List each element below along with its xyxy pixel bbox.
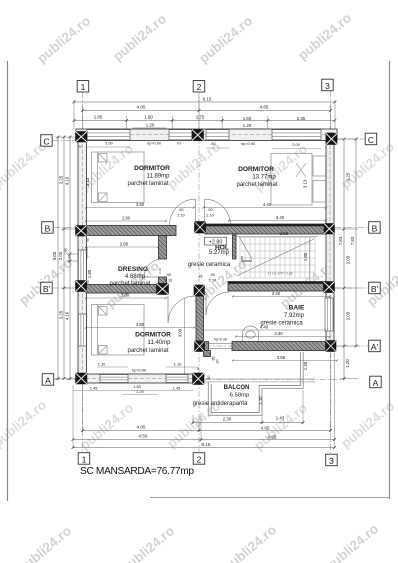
svg-text:.90: .90: [210, 273, 215, 277]
bed room1: [92, 152, 145, 203]
svg-text:11.89mp: 11.89mp: [147, 174, 171, 180]
svg-text:2.35: 2.35: [297, 116, 306, 121]
dim 1.10 balcon step: [258, 396, 263, 405]
svg-text:1.10: 1.10: [258, 396, 263, 405]
top dimension extension lines: [74, 97, 335, 129]
grid bubble A' right: [369, 340, 381, 352]
svg-text:4.10: 4.10: [64, 176, 69, 185]
window dim lines A wall: [73, 367, 197, 395]
svg-text:gresie ceramica: gresie ceramica: [188, 262, 231, 268]
grid bubble 3 bottom: [326, 454, 338, 466]
interior dim 4.40 baie: [204, 324, 327, 330]
grid bubble 1 bottom: [78, 453, 90, 465]
svg-text:hp=0.90: hp=0.90: [132, 368, 147, 373]
svg-text:3.13: 3.13: [303, 179, 308, 188]
axis A dashed line: [54, 379, 345, 381]
dim 3.65 balcon top: [232, 355, 338, 362]
svg-text:56: 56: [78, 145, 82, 149]
window dims top row: [105, 140, 300, 147]
svg-text:SC MANSARDA=76.77mp: SC MANSARDA=76.77mp: [80, 466, 194, 477]
svg-text:11.40mp: 11.40mp: [148, 340, 172, 346]
dim 9.00 left: [52, 136, 59, 380]
column C2: [192, 130, 204, 141]
room label balcon: [193, 385, 250, 407]
watermark row5: [15, 521, 381, 563]
svg-text:5.27mp: 5.27mp: [209, 250, 230, 256]
svg-text:2.30: 2.30: [223, 417, 232, 422]
svg-text:1.20: 1.20: [146, 122, 155, 127]
interior dim 4.40 room2: [202, 202, 327, 209]
dim 1.20 windows top: [133, 122, 265, 129]
window left dresing: [78, 250, 86, 281]
grid bubble A left: [42, 374, 54, 386]
svg-text:4.05: 4.05: [137, 105, 146, 110]
wall balcony door jog: [204, 351, 211, 357]
balcony railing: [208, 352, 303, 415]
axis B dashed line: [54, 227, 368, 229]
svg-text:gresie ceramica: gresie ceramica: [260, 321, 303, 327]
svg-text:3: 3: [325, 81, 330, 91]
svg-text:.90: .90: [207, 208, 212, 212]
svg-text:1.10: 1.10: [98, 362, 106, 367]
window left dormitor3: [78, 314, 86, 346]
window top 0.80: [206, 130, 229, 140]
svg-text:7.92mp: 7.92mp: [284, 313, 305, 319]
interior dim 3.30 baie: [235, 331, 331, 338]
dim 1.80 stairs: [303, 238, 310, 278]
svg-text:1.80: 1.80: [303, 252, 308, 261]
dim 9.15 bottom: [72, 442, 336, 449]
svg-text:3.30: 3.30: [274, 331, 283, 336]
bottom dimension extension lines: [73, 353, 335, 448]
column A'3: [326, 341, 337, 352]
svg-text:13.77mp: 13.77mp: [252, 175, 276, 181]
door room1 arc: [170, 199, 196, 225]
grid bubble B' left: [41, 282, 53, 294]
grid bubble 2 top: [193, 81, 205, 93]
grid bubble B right: [369, 222, 381, 234]
dim 4.10 0.80 0.90 4.10 left: [64, 136, 72, 380]
svg-text:1.43: 1.43: [276, 416, 285, 421]
svg-text:9.15: 9.15: [202, 442, 211, 447]
svg-text:3.25: 3.25: [58, 310, 63, 319]
axis 3 dashed line: [330, 91, 332, 453]
window A bottom right: [166, 375, 188, 383]
interior dim 3.80 room1: [85, 202, 195, 209]
svg-text:BALCON: BALCON: [224, 385, 250, 391]
svg-text:6.58mp: 6.58mp: [230, 393, 250, 399]
interior dim 2.60 dresing: [85, 241, 160, 248]
dim 1.20 balcon right: [303, 361, 308, 370]
wall B right: [205, 224, 326, 234]
svg-text:publi24.ro: publi24.ro: [164, 139, 223, 192]
column C1: [76, 132, 88, 143]
watermark row4: [0, 397, 397, 453]
svg-text:0.90: 0.90: [68, 255, 72, 262]
svg-text:2.10: 2.10: [209, 279, 216, 283]
svg-text:3.00: 3.00: [178, 328, 183, 337]
svg-text:45: 45: [199, 275, 203, 279]
window top 1.50: [87, 130, 130, 140]
column B2: [195, 222, 206, 234]
window top 0.70: [169, 130, 192, 140]
column A1: [76, 373, 88, 384]
svg-text:.90: .90: [207, 376, 211, 381]
window sill dim lines top: [86, 147, 321, 149]
watermark row2: [0, 138, 397, 194]
svg-text:parchet laminat: parchet laminat: [236, 182, 277, 188]
window right baie: [325, 298, 333, 331]
svg-text:17 x 0.175 = 2.28: 17 x 0.175 = 2.28: [268, 272, 293, 276]
svg-text:publi24.ro: publi24.ro: [77, 400, 136, 453]
dim 7.83 right: [338, 138, 358, 348]
svg-text:1.80: 1.80: [87, 269, 92, 278]
watermark row3: [16, 255, 398, 311]
staircase break diagonal: [237, 237, 315, 277]
level marker +2.80 hol: [205, 237, 227, 245]
svg-text:hp=0.90: hp=0.90: [214, 337, 227, 341]
svg-text:hp=0.50: hp=0.50: [85, 247, 89, 259]
axis B' dashed line: [53, 287, 368, 289]
interior dim 3.13 room1: [85, 177, 90, 186]
svg-text:2.00: 2.00: [292, 142, 300, 147]
svg-text:2.10: 2.10: [177, 214, 184, 218]
column B1: [76, 226, 87, 237]
svg-text:1.85: 1.85: [94, 115, 103, 120]
svg-text:4.68mp: 4.68mp: [125, 274, 146, 280]
balcony slab edge line: [204, 379, 315, 382]
svg-text:7.83: 7.83: [350, 236, 355, 245]
svg-text:3.25: 3.25: [346, 172, 351, 181]
svg-text:A: A: [373, 378, 379, 388]
svg-text:publi24.ro: publi24.ro: [118, 523, 177, 563]
svg-text:4.65: 4.65: [261, 426, 270, 431]
svg-text:1.20: 1.20: [303, 361, 308, 370]
svg-text:3: 3: [329, 456, 334, 466]
column B'1: [76, 281, 87, 292]
svg-text:DORMITOR: DORMITOR: [238, 166, 274, 173]
svg-text:1.10: 1.10: [174, 362, 182, 367]
svg-text:DRESING: DRESING: [118, 266, 148, 273]
svg-text:4.65: 4.65: [260, 105, 269, 110]
grid bubble 1 top: [77, 81, 89, 93]
svg-text:publi24.ro: publi24.ro: [338, 398, 397, 451]
interior dim 3.00 dormitor3: [178, 298, 185, 374]
window dims A wall: [90, 362, 182, 395]
svg-text:1.20: 1.20: [136, 389, 144, 394]
svg-text:4.65: 4.65: [268, 435, 277, 440]
svg-text:2.10: 2.10: [158, 268, 162, 274]
interior dim 3.40 room2: [228, 215, 327, 222]
svg-text:publi24.ro: publi24.ro: [16, 255, 75, 308]
bed dormitor3: [92, 305, 145, 356]
svg-text:publi24.ro: publi24.ro: [34, 13, 93, 66]
staircase: [240, 238, 315, 279]
dim 2.96 under wall B: [236, 231, 318, 237]
column B'2: [194, 285, 205, 296]
svg-text:.80: .80: [210, 141, 216, 146]
svg-text:3.80: 3.80: [136, 322, 145, 327]
svg-text:1.60: 1.60: [243, 116, 252, 121]
svg-text:parchet laminat: parchet laminat: [109, 281, 150, 287]
door dresing arc: [144, 259, 162, 277]
balcony door dims: [207, 337, 227, 380]
svg-text:BAIE: BAIE: [289, 305, 305, 312]
svg-text:50: 50: [86, 238, 90, 242]
svg-text:1.45: 1.45: [173, 386, 181, 391]
grid bubble 2 bottom: [193, 453, 205, 465]
svg-text:publi24.ro: publi24.ro: [338, 139, 397, 192]
svg-text:2.10: 2.10: [165, 279, 172, 283]
door dims room1: [177, 208, 213, 218]
wall left exterior 1: [78, 132, 87, 384]
svg-text:publi24.ro: publi24.ro: [15, 523, 74, 563]
stair formula text: [268, 272, 293, 276]
grid bubble B' right: [369, 282, 381, 294]
wall A bottom: [86, 374, 193, 383]
svg-text:4.40: 4.40: [263, 202, 272, 207]
svg-text:.90: .90: [178, 208, 183, 212]
dim 9.15 top: [73, 96, 337, 103]
wall right exterior 3: [326, 133, 334, 351]
svg-text:1.75: 1.75: [196, 115, 205, 120]
room label hol: [188, 245, 231, 269]
svg-text:publi24.ro: publi24.ro: [110, 11, 169, 64]
svg-text:.20: .20: [216, 360, 220, 365]
right dimension extension lines: [335, 139, 358, 379]
svg-text:parchet laminat: parchet laminat: [127, 181, 168, 187]
window top 2.00: [272, 130, 321, 140]
drawing frame left border: [7, 61, 9, 501]
drawing frame bottom border: [150, 497, 390, 499]
grid bubble 3 top: [322, 79, 334, 91]
bed room2: [271, 154, 326, 206]
room label dresing: [109, 266, 150, 287]
svg-text:2.05: 2.05: [58, 251, 63, 260]
grid bubble C left: [41, 135, 53, 147]
wall top exterior C: [76, 129, 337, 141]
column A'2: [195, 341, 205, 352]
svg-text:2.10: 2.10: [206, 214, 213, 218]
svg-text:DORMITOR: DORMITOR: [134, 165, 170, 172]
svg-text:2.05: 2.05: [346, 311, 351, 320]
svg-text:2: 2: [197, 454, 202, 464]
grid bubble B left: [42, 222, 54, 234]
svg-text:A: A: [45, 375, 51, 385]
svg-text:DORMITOR: DORMITOR: [135, 332, 171, 339]
room label dormitor3: [127, 332, 171, 355]
dim 4.05 4.65 bottom: [81, 425, 332, 432]
title SC MANSARDA: [80, 466, 194, 477]
svg-text:4.05: 4.05: [137, 425, 146, 430]
dim 1.85 1.60 1.75 1.60 2.35 top: [73, 115, 337, 122]
interior dim 1.80 dresing: [85, 247, 92, 278]
svg-text:1.20: 1.20: [243, 123, 252, 128]
axis A' dashed line: [205, 345, 368, 347]
svg-text:4.10: 4.10: [64, 311, 69, 320]
svg-text:1.20: 1.20: [345, 359, 350, 368]
interior dim 3.80 dormitor3: [85, 322, 195, 329]
interior dim 2.80 room1: [85, 215, 167, 222]
wall B left: [86, 226, 176, 236]
dim 2.80 under wall B': [85, 292, 167, 299]
svg-text:parchet laminat: parchet laminat: [127, 348, 168, 354]
door room2 arc: [205, 199, 231, 225]
interior dim 3.13 room2: [303, 179, 308, 188]
svg-text:.90: .90: [166, 273, 171, 277]
room label dormitor2: [236, 166, 277, 188]
watermark row1: [34, 10, 354, 66]
svg-text:hp=0.90: hp=0.90: [241, 141, 256, 146]
wall stair stub: [233, 235, 237, 259]
svg-text:2.96: 2.96: [280, 231, 289, 236]
svg-text:publi24.ro: publi24.ro: [220, 522, 279, 563]
svg-text:1.45: 1.45: [90, 386, 98, 391]
column B'3: [324, 282, 335, 293]
svg-text:50: 50: [86, 280, 90, 284]
door dims B': [165, 273, 216, 283]
drawing frame right border: [389, 61, 391, 499]
svg-text:1: 1: [82, 454, 87, 464]
svg-text:2: 2: [197, 82, 202, 92]
wall dresing partition: [159, 236, 167, 285]
svg-text:0.80: 0.80: [64, 248, 68, 255]
svg-text:9.15: 9.15: [203, 96, 212, 101]
svg-text:publi24.ro: publi24.ro: [322, 521, 381, 563]
svg-text:3.13: 3.13: [85, 177, 90, 186]
column A2: [193, 373, 205, 385]
wall A' baie bottom: [204, 342, 334, 351]
grid bubble C right: [365, 133, 377, 145]
svg-text:3.65: 3.65: [277, 355, 286, 360]
wall partition dormitor-baie: [196, 296, 204, 341]
svg-text:C: C: [43, 136, 49, 146]
tiny wall thickness labels: [78, 145, 200, 371]
window A bottom left: [100, 375, 128, 383]
svg-text:2.80: 2.80: [122, 215, 131, 220]
svg-text:4.50: 4.50: [139, 434, 148, 439]
room label dormitor1: [127, 165, 170, 187]
svg-text:C: C: [368, 135, 374, 145]
column B' dresing: [157, 284, 169, 295]
wall B' left: [86, 285, 168, 294]
dim 4.05 / 4.65 top: [81, 105, 332, 112]
svg-text:1.60: 1.60: [144, 115, 153, 120]
svg-text:3.40: 3.40: [276, 215, 285, 220]
dim 3.25 2.05 2.05 1.20 right: [343, 138, 351, 380]
axis C dashed line: [53, 139, 365, 141]
svg-text:B: B: [45, 223, 51, 233]
wall B' right: [228, 282, 326, 292]
svg-text:gresie antiderapanta: gresie antiderapanta: [193, 401, 248, 407]
svg-text:publi24.ro: publi24.ro: [295, 10, 354, 63]
svg-text:7.83: 7.83: [338, 236, 343, 245]
door balcon threshold: [209, 344, 233, 349]
svg-text:B: B: [372, 223, 378, 233]
grid bubble A right: [370, 376, 382, 388]
door dormitor3 arc: [168, 296, 195, 323]
svg-text:40: 40: [196, 367, 200, 371]
dim 4.50 4.65 bottom: [72, 434, 336, 441]
toilet baie: [243, 326, 259, 341]
column C3: [326, 134, 337, 145]
svg-text:B': B': [43, 284, 51, 294]
dim 2.30 1.43 balcony: [192, 416, 305, 424]
svg-text:3.80: 3.80: [136, 202, 145, 207]
svg-text:2.05: 2.05: [346, 255, 351, 264]
svg-text:hp=0.90: hp=0.90: [147, 140, 162, 145]
axis 2 dashed line: [198, 92, 200, 452]
left dimension extension lines: [55, 137, 78, 379]
svg-text:2.80: 2.80: [121, 292, 130, 297]
svg-text:1: 1: [81, 82, 86, 92]
svg-text:.70: .70: [175, 140, 181, 145]
dim 3.40 under wall B' right: [232, 291, 331, 298]
svg-text:publi24.ro: publi24.ro: [196, 13, 255, 66]
column B3: [324, 224, 335, 235]
svg-text:B': B': [371, 284, 379, 294]
svg-text:3.40: 3.40: [272, 291, 281, 296]
svg-text:9.00: 9.00: [52, 251, 57, 260]
svg-text:2.60: 2.60: [120, 241, 129, 246]
svg-text:A': A': [371, 342, 379, 352]
door baie arc: [206, 292, 229, 315]
dim 3.25 2.05 3.25 left: [58, 136, 66, 380]
axis 1 dashed line: [82, 92, 84, 452]
room label baie: [260, 305, 305, 327]
svg-text:1.50: 1.50: [105, 140, 113, 145]
svg-text:3.25: 3.25: [58, 175, 63, 184]
